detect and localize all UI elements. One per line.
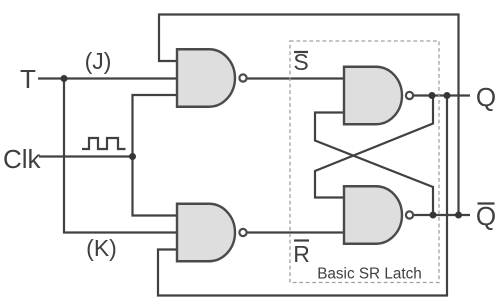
wire: T input lead to J-gate middle input: [38, 77, 177, 79]
label: R-bar: [293, 241, 310, 268]
wire: cross-coupling from Q node to latch bottom gate upper input: [315, 96, 433, 198]
node: Q junction dot to bottom feedback: [444, 92, 451, 99]
svg-text:Clk: Clk: [3, 144, 42, 174]
wire: Clk branch down to K-gate top input: [133, 157, 178, 216]
wire: cross-coupling from Q-bar node to latch top gate lower input: [315, 113, 433, 216]
node: Clk junction dot: [129, 153, 136, 160]
svg-text:T: T: [20, 64, 36, 94]
wire: bottom feedback from Q node to K-gate bottom input: [158, 96, 447, 296]
node: Q-bar junction dot to cross-coupling: [430, 212, 437, 219]
node: T junction dot: [61, 75, 68, 82]
wire: Q output lead: [414, 94, 470, 96]
wire: S-bar wire from J-gate output to latch top gate input: [248, 77, 345, 79]
svg-text:Q: Q: [476, 82, 496, 112]
NAND gate: K input gate (3-input): [177, 204, 247, 262]
NAND gate: latch bottom gate: [344, 186, 413, 244]
dashed box: Basic SR Latch enclosure: [290, 41, 439, 283]
svg-text:Basic SR Latch: Basic SR Latch: [317, 266, 422, 283]
svg-text:R: R: [293, 241, 310, 267]
node: Q junction dot to cross-coupling: [429, 92, 436, 99]
svg-text:(J): (J): [85, 48, 112, 74]
wire: Q-bar output lead: [414, 214, 470, 216]
wire: Clk input lead: [39, 155, 133, 157]
NAND gate: J input gate (3-input): [177, 49, 247, 107]
node: Q-bar junction dot to top feedback: [455, 212, 462, 219]
wire: Clk branch up to J-gate bottom input: [133, 95, 178, 157]
wire: R-bar wire from K-gate output to latch bottom gate input: [248, 231, 345, 233]
label: S-bar: [293, 49, 308, 75]
wire: top feedback from Q-bar node to J-gate top input: [159, 15, 459, 216]
svg-text:(K): (K): [86, 235, 117, 261]
svg-text:Q: Q: [476, 201, 496, 231]
wire: T branch down to K-gate middle input: [64, 79, 177, 233]
NAND gate: latch top gate: [344, 67, 413, 125]
label: Q-bar output: [476, 201, 496, 231]
clock pulse waveform symbol: [82, 138, 126, 149]
